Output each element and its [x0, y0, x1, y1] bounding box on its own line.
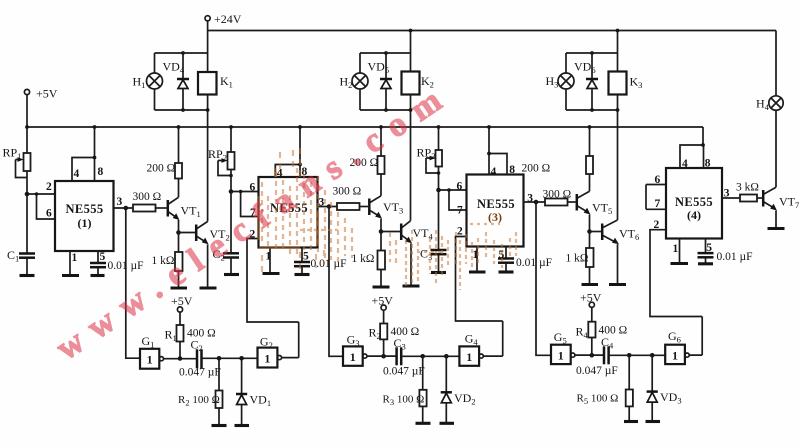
capacitor C4 coupling group3 [576, 335, 618, 377]
svg-text:0.01 µF: 0.01 µF [516, 257, 552, 269]
wire IC4 pin6 stub [646, 184, 666, 186]
svg-text:1: 1 [72, 252, 78, 264]
wire IC2 pin1 ground stub [269, 248, 271, 274]
wire R3 column [422, 356, 424, 423]
diode VD6 [574, 53, 598, 110]
wire VT5 emitter [589, 215, 591, 232]
svg-text:1: 1 [673, 243, 679, 255]
wire R1 column [179, 312, 181, 358]
svg-text:1: 1 [558, 348, 564, 362]
wire G5 output [575, 354, 604, 356]
wire C3 to G4 [401, 355, 459, 357]
resistor 300ohm stage2 [333, 186, 362, 211]
gate G4 [459, 332, 483, 366]
ground C3 timing [431, 271, 446, 274]
wire IC4 pin2 trigger [650, 230, 702, 317]
svg-text:0.047 µF: 0.047 µF [383, 366, 425, 378]
wire VT6 emitter ground [617, 244, 619, 284]
IC U1 NE555 (1) [46, 166, 123, 264]
capacitor C3 timing stage3 [420, 190, 447, 273]
ground 1kohm stage2 [373, 285, 390, 288]
svg-text:8: 8 [98, 166, 104, 178]
gate G1 [140, 334, 163, 369]
resistor 3kohm stage4 [736, 182, 759, 202]
wire R5 column [628, 355, 630, 421]
resistor R2 400ohm group2 [369, 324, 420, 342]
resistor R2 100ohm group1 [178, 391, 223, 409]
capacitor 0.01uF IC3 pin5 [498, 247, 552, 273]
ground VD2 [440, 422, 455, 425]
wire R2-400 column [383, 310, 385, 356]
svg-text:3 kΩ: 3 kΩ [736, 182, 759, 194]
wire +24V rail [208, 21, 776, 31]
transistor VT3 [360, 196, 404, 219]
wire group2 top bar [360, 52, 411, 54]
resistor 300ohm stage3 [543, 189, 572, 206]
svg-text:1: 1 [466, 350, 472, 364]
wire RP2 column [230, 127, 232, 192]
svg-text:7: 7 [457, 205, 463, 217]
ground IC4 pin5 [698, 262, 713, 265]
IC U2 NE555 (2) [250, 166, 325, 263]
transistor VT1 [156, 197, 201, 220]
transistor VT2 [179, 222, 230, 245]
wire K1 column [207, 31, 209, 222]
potentiometer RP2 [208, 147, 235, 176]
svg-text:0.047 µF: 0.047 µF [576, 365, 618, 377]
ground VT4 [403, 284, 420, 287]
wire H3 branch [565, 53, 567, 110]
diode VD4 [163, 53, 190, 110]
node +5V terminal group1 [171, 294, 193, 312]
wire IC3 pin3 [524, 201, 546, 203]
wire IC3 pins4-8 bracket [489, 127, 507, 175]
ground R2 [212, 424, 227, 427]
lamp H3 [546, 73, 575, 90]
resistor 300ohm stage1 [133, 191, 162, 212]
svg-text:+24V: +24V [214, 12, 242, 26]
wire IC4 pins4-8 bracket [680, 127, 704, 168]
resistor 200ohm stage2 [350, 156, 385, 174]
relay K3 [609, 72, 643, 95]
wire IC1 pin1 ground stub [69, 251, 71, 276]
lamp H1 [133, 73, 163, 90]
wire VT3 emitter [380, 219, 382, 232]
wire 1kohm stage3 [589, 232, 591, 285]
svg-text:(4): (4) [687, 208, 701, 222]
svg-text:3: 3 [117, 196, 123, 208]
svg-text:6: 6 [46, 208, 52, 220]
wire K2 column [410, 31, 412, 221]
svg-text:4: 4 [491, 166, 497, 178]
wire K3 column [617, 31, 619, 221]
wire IC2 pin6 stub [231, 191, 259, 193]
wire G2 output to IC2 pin2 [282, 322, 299, 358]
svg-text:0.047 µF: 0.047 µF [179, 367, 221, 379]
wire +5V rail [27, 126, 703, 128]
wire H1 branch [154, 53, 156, 110]
wire IC2 pin3 to G3 riser [329, 207, 343, 357]
wire group3 top bar [566, 52, 618, 54]
svg-text:2: 2 [46, 181, 52, 193]
watermark orange tint on IC2 border [259, 168, 318, 248]
ground VD3 [646, 420, 661, 423]
diode VD2 [441, 356, 476, 423]
resistor 200ohm stage1 [147, 163, 183, 179]
wire IC4 pin7 stub and 6-7 bracket [646, 185, 666, 210]
svg-text:NE555: NE555 [477, 197, 515, 211]
transistor VT7 [757, 187, 799, 210]
resistor 1kohm stage1 [152, 252, 183, 271]
potentiometer RP3 [417, 146, 443, 174]
svg-text:4: 4 [277, 168, 283, 180]
svg-text:R2 100 Ω: R2 100 Ω [178, 394, 220, 408]
svg-text:R5 100 Ω: R5 100 Ω [577, 393, 619, 407]
svg-text:8: 8 [705, 158, 711, 170]
node +24V terminal [205, 12, 242, 26]
svg-text:R3 100 Ω: R3 100 Ω [383, 394, 425, 408]
svg-text:1 kΩ: 1 kΩ [352, 253, 375, 265]
svg-text:7: 7 [655, 198, 661, 210]
resistor R1 400ohm [165, 325, 216, 343]
wire IC3 pin1 ground stub [476, 247, 478, 273]
wire group3 bottom bar [566, 109, 618, 111]
node +5V terminal group3 [580, 291, 602, 308]
svg-text:300 Ω: 300 Ω [133, 191, 162, 203]
wire IC1 pin2 stub [27, 193, 55, 195]
ground IC1 pin1 [62, 274, 79, 277]
ground R5 [624, 420, 638, 423]
ground C1 [20, 274, 35, 277]
ground VT6 [609, 283, 626, 286]
gate G6 [665, 329, 689, 364]
ground IC2 pin5 [295, 273, 310, 276]
svg-text:1: 1 [350, 350, 356, 364]
lamp H4 [756, 96, 783, 112]
wire G1 output [164, 358, 198, 360]
wire RP3 column [438, 127, 440, 190]
diode VD1 [236, 358, 271, 425]
resistor 1kohm stage2 [352, 251, 386, 270]
relay K1 [198, 72, 233, 95]
svg-text:+5V: +5V [372, 294, 394, 308]
ground VT2 [200, 286, 217, 289]
wire IC2 pin6-pin7 bracket [241, 192, 259, 217]
wire G6 output to IC4 pin2 [689, 317, 702, 356]
wire G4 output to IC3 pin2 [483, 321, 502, 356]
capacitor 0.01uF IC4 pin5 [698, 239, 753, 264]
capacitor C3 coupling group2 [383, 336, 425, 378]
wire +5V vertical feed [26, 95, 28, 127]
wire 200ohm stage2 feed [380, 127, 382, 196]
svg-text:+5V: +5V [580, 291, 602, 305]
svg-text:5: 5 [100, 251, 106, 263]
svg-text:300 Ω: 300 Ω [543, 189, 572, 201]
wire 1kohm stage2 [380, 232, 382, 288]
potentiometer RP1 [3, 146, 31, 178]
svg-text:200 Ω: 200 Ω [522, 163, 551, 175]
wire C2 to G2 [202, 357, 258, 359]
wire G3 output [367, 355, 397, 357]
wire VT4 emitter ground [410, 243, 412, 286]
lamp H2 [340, 73, 369, 90]
svg-text:1: 1 [147, 353, 153, 367]
wire IC3 pin6 stub [439, 189, 467, 191]
capacitor C2 timing stage2 [213, 192, 240, 275]
wire R4 column [591, 307, 593, 355]
svg-text:0.01 µF: 0.01 µF [717, 251, 753, 263]
gate G3 [343, 333, 367, 366]
wire C4 to G6 [609, 354, 666, 356]
wire H4 column [775, 31, 777, 188]
wire 200ohm stage3 feed [589, 127, 591, 191]
transistor VT5 [568, 191, 613, 216]
watermark orange dashes [262, 148, 516, 290]
transistor VT4 [381, 221, 434, 244]
wire IC2 pin3 [318, 206, 338, 208]
wire IC3 pin3 to G5 riser [536, 202, 551, 355]
wire IC1 pin3 to G1 riser [126, 208, 140, 358]
gate G2 [258, 335, 282, 368]
svg-text:5: 5 [303, 251, 309, 263]
node +5V terminal group2 [372, 294, 394, 311]
svg-text:200 Ω: 200 Ω [147, 163, 176, 175]
svg-text:8: 8 [509, 164, 515, 176]
ground VT7 [768, 227, 785, 230]
ground IC1 pin5 [91, 274, 105, 277]
svg-text:6: 6 [250, 182, 256, 194]
wire group1 top bar [155, 52, 208, 54]
transistor VT6 [590, 220, 640, 244]
capacitor C2 coupling group1 [179, 338, 221, 379]
ground IC4 pin1 [671, 262, 689, 265]
wire H2 branch [359, 53, 361, 110]
svg-text:NE555: NE555 [65, 202, 103, 216]
wire IC3 pin6-pin7 bracket [449, 190, 467, 210]
wire 200ohm stage1 feed [178, 127, 180, 197]
wire VT1 emitter [178, 220, 180, 233]
wire VT7 emitter ground [775, 211, 777, 229]
svg-text:1: 1 [672, 348, 678, 362]
svg-text:4: 4 [74, 168, 80, 180]
resistor R3 100ohm [383, 390, 427, 407]
IC U3 NE555 (3) [457, 164, 534, 261]
ground R3 [416, 422, 431, 425]
diode VD5 [368, 53, 393, 110]
capacitor C1 [7, 194, 35, 276]
svg-text:1: 1 [264, 352, 270, 366]
resistor 1kohm stage3 [566, 248, 594, 267]
wire IC2 pin2 trigger [247, 239, 299, 323]
ground IC2 pin1 [263, 272, 280, 275]
wire group1 bottom bar [155, 109, 208, 111]
svg-text:1 kΩ: 1 kΩ [566, 253, 589, 265]
ground 1kohm stage3 [582, 283, 599, 286]
node +5V terminal [24, 87, 57, 101]
junction dots VD4 [181, 51, 185, 55]
wire RP1 column [26, 127, 28, 194]
gate G5 [551, 330, 575, 364]
svg-text:4: 4 [682, 158, 688, 170]
wire IC3 pin2 trigger [456, 237, 503, 322]
wire 1kohm stage1 [178, 233, 180, 289]
wire IC4 pin3 [722, 197, 740, 199]
ground IC3 pin1 [469, 270, 486, 273]
ground VD1 [235, 424, 250, 427]
svg-text:(3): (3) [488, 210, 502, 224]
svg-text:(1): (1) [78, 216, 92, 230]
wire IC2 pins4-8 bracket [275, 127, 300, 177]
diode VD3 [647, 355, 682, 421]
wire R2 column [218, 358, 220, 425]
ground C2 timing [224, 273, 239, 276]
resistor R4 400ohm [576, 322, 628, 340]
resistor 200ohm stage3 [522, 156, 594, 175]
svg-text:+5V: +5V [36, 87, 58, 101]
capacitor 0.01uF IC1 pin5 [90, 251, 144, 276]
svg-text:NE555: NE555 [675, 195, 713, 209]
resistor R5 100ohm [577, 390, 633, 407]
svg-text:6: 6 [457, 181, 463, 193]
wire IC1 pin2-pin6 bracket [37, 194, 56, 219]
IC U4 NE555 (4) [654, 158, 730, 256]
wire VT2 emitter ground [207, 244, 209, 288]
wire IC1 pins4-8 bracket [72, 127, 95, 181]
ground IC3 pin5 [499, 270, 514, 273]
relay K2 [402, 72, 434, 95]
capacitor 0.01uF IC2 pin5 [294, 248, 347, 275]
wire IC1 pin3 [114, 207, 134, 209]
ground 1kohm stage1 [171, 286, 188, 289]
wire group2 bottom bar [360, 109, 411, 111]
wire IC4 pin1 ground stub [679, 239, 681, 264]
